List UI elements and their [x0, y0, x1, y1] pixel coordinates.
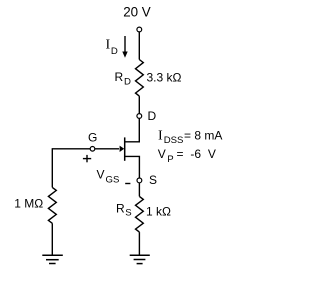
label minus VGS [125, 183, 130, 185]
ground right [130, 255, 150, 263]
svg-text:20 V: 20 V [123, 4, 151, 19]
svg-text:G: G [88, 131, 97, 145]
svg-text:V: V [158, 147, 166, 161]
terminal circle 20V [137, 27, 142, 32]
wire gate left vertical [51, 148, 53, 187]
label IDSS = 8 mA [158, 129, 222, 147]
svg-text:V: V [208, 147, 216, 161]
label VP = -6 V [158, 147, 216, 165]
svg-text:-6: -6 [190, 147, 201, 161]
current arrow ID [122, 36, 127, 58]
label RD [115, 70, 132, 88]
svg-text:D: D [124, 77, 131, 88]
wire source lead [125, 156, 140, 178]
label RS [116, 202, 132, 219]
node S circle [137, 178, 142, 183]
resistor RS [136, 196, 144, 232]
svg-text:P: P [167, 154, 173, 165]
svg-text:D: D [148, 109, 157, 123]
svg-text:D: D [111, 46, 118, 57]
ground left [42, 255, 63, 263]
svg-text:S: S [149, 173, 157, 187]
wire node D to drain [125, 118, 140, 141]
svg-text:S: S [125, 208, 131, 219]
svg-text:V: V [97, 168, 105, 182]
svg-text:I: I [106, 38, 111, 53]
svg-text:=: = [177, 147, 184, 161]
svg-text:1 kΩ: 1 kΩ [146, 204, 171, 218]
wire supply to RD [138, 32, 140, 60]
transistor JFET channel bar [124, 137, 126, 160]
svg-text:1 MΩ: 1 MΩ [14, 196, 43, 210]
wire S to RS [138, 183, 140, 197]
resistor RD [136, 60, 144, 97]
svg-text:= 8 mA: = 8 mA [184, 129, 222, 143]
wire RS to ground [138, 232, 140, 255]
wire gate [52, 148, 119, 150]
label ID [106, 38, 118, 57]
node D circle [137, 114, 142, 119]
svg-text:R: R [116, 202, 125, 216]
wire RD to node D [138, 96, 140, 114]
resistor RG 1 MOhm [48, 187, 56, 223]
node G circle [90, 147, 95, 152]
svg-text:GS: GS [106, 175, 120, 186]
wire RG to ground [51, 223, 53, 255]
svg-text:3.3 kΩ: 3.3 kΩ [147, 70, 182, 84]
gate arrowhead [120, 146, 125, 152]
svg-text:I: I [158, 129, 163, 144]
svg-text:DSS: DSS [164, 135, 184, 146]
label VGS [97, 168, 120, 186]
label plus VGS [83, 155, 91, 162]
svg-text:R: R [115, 70, 124, 84]
